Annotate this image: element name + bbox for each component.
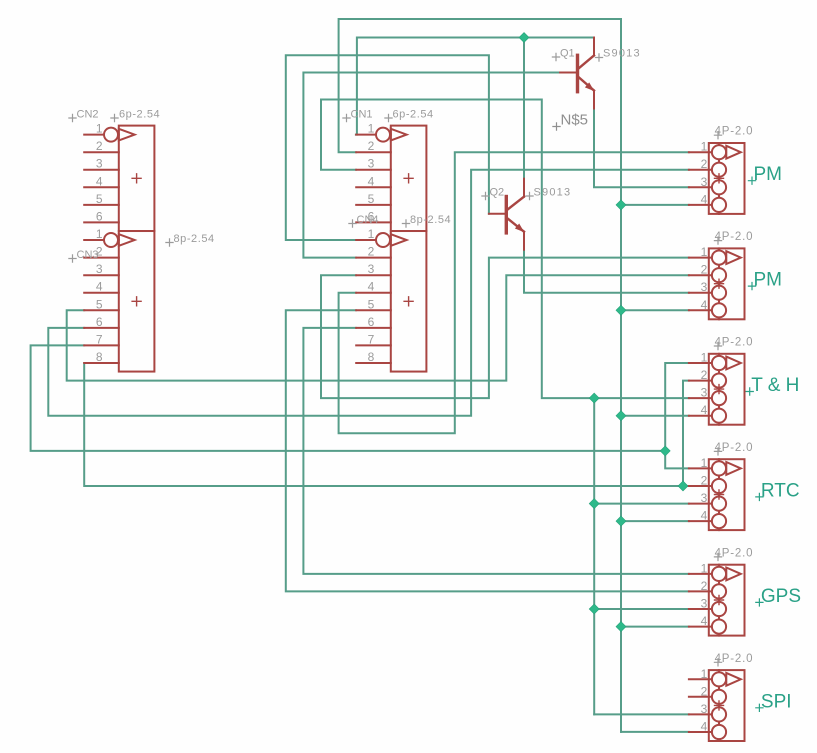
svg-text:8p-2.54: 8p-2.54	[174, 233, 215, 245]
svg-text:SPI: SPI	[761, 691, 792, 712]
svg-text:8: 8	[368, 350, 375, 364]
svg-text:1: 1	[701, 667, 708, 681]
label Q2 name	[481, 187, 504, 201]
label SPI value	[714, 653, 753, 667]
label CN3 pin 4 number	[96, 280, 103, 294]
label CN4 pin 2 number	[368, 245, 375, 259]
wire VCC to GPS pin4	[621, 626, 689, 628]
wire net SDA CN1.3 rail	[321, 100, 689, 399]
svg-text:4: 4	[701, 720, 708, 734]
junction CN3.7 branch	[660, 446, 670, 456]
label SPI pin 1 number	[701, 667, 708, 681]
connector CN2 6p-2.54	[84, 126, 154, 231]
svg-text:Q2: Q2	[490, 187, 505, 199]
label PM1 pin 2 number	[701, 157, 708, 171]
junction VCC/PM1.4	[616, 200, 626, 210]
label CN4 pin 5 number	[368, 297, 375, 311]
connector CN4 8p-2.54	[356, 231, 426, 372]
wire SDA branch vertical	[593, 398, 595, 714]
label Q1 value	[595, 48, 641, 62]
label PM1 name	[748, 164, 782, 185]
svg-text:CN1: CN1	[351, 109, 373, 121]
label GPS pin 4 number	[701, 614, 708, 628]
label T&H value	[714, 337, 753, 351]
wire net CN4.4 to PM1 pin1	[339, 152, 689, 433]
svg-text:3: 3	[96, 157, 103, 171]
svg-text:2: 2	[701, 474, 708, 488]
svg-text:6: 6	[96, 315, 103, 329]
wire VCC to PM1 pin4	[621, 204, 689, 206]
wire net CN4.5 to GPS pin2	[286, 310, 689, 591]
wire net N$5 Q1 emitter to PM1 pin3	[594, 109, 689, 188]
label RTC name	[755, 480, 799, 501]
wire SDA to RTC pin3	[594, 503, 689, 505]
wire SDA to SPI pin3	[594, 713, 689, 715]
label SPI pin 3 number	[701, 702, 708, 716]
label CN1 pin 3 number	[368, 157, 375, 171]
svg-text:GPS: GPS	[761, 586, 801, 607]
label CN4 pin 4 number	[368, 280, 375, 294]
svg-text:N$5: N$5	[561, 112, 589, 129]
svg-text:1: 1	[701, 351, 708, 365]
label net label N$5	[552, 112, 588, 131]
svg-text:4: 4	[701, 298, 708, 312]
svg-text:2: 2	[701, 579, 708, 593]
label GPS pin 2 number	[701, 579, 708, 593]
wire net CN4.1 to Q2 base	[286, 55, 489, 240]
label CN1 pin 2 number	[368, 139, 375, 153]
svg-text:3: 3	[701, 386, 708, 400]
label CN4 pin 3 number	[368, 262, 375, 276]
connector T&H 4P-2.0	[689, 354, 745, 425]
wire net CN3.8 to T&H pin2 and RTC pin2	[84, 363, 689, 486]
label PM2 pin 2 number	[701, 263, 708, 277]
svg-text:6: 6	[96, 209, 103, 223]
svg-text:4P-2.0: 4P-2.0	[715, 547, 754, 559]
transistor Q2 S9013	[489, 179, 524, 250]
svg-text:2: 2	[701, 263, 708, 277]
label T&H pin 4 number	[701, 403, 708, 417]
label CN3 value	[165, 233, 214, 247]
label CN3 pin 6 number	[96, 315, 103, 329]
svg-text:1: 1	[701, 561, 708, 575]
junction VCC/RTC.4	[616, 516, 626, 526]
label GPS pin 1 number	[701, 561, 708, 575]
svg-text:8p-2.54: 8p-2.54	[410, 214, 451, 226]
svg-text:3: 3	[701, 597, 708, 611]
svg-text:Q1: Q1	[560, 48, 575, 60]
label PM2 name	[748, 270, 782, 291]
connector PM2 4P-2.0	[689, 248, 745, 319]
svg-text:4: 4	[96, 280, 103, 294]
wire net CN3.6 to PM1 pin2	[48, 170, 689, 416]
label RTC pin 3 number	[701, 491, 708, 505]
label CN4 value	[402, 214, 451, 228]
wire net CN3.5 to PM2 pin2	[67, 275, 689, 380]
label CN1 pin 5 number	[368, 192, 375, 206]
label T&H pin 1 number	[701, 351, 708, 365]
label RTC pin 1 number	[701, 456, 708, 470]
svg-text:6p-2.54: 6p-2.54	[393, 109, 434, 121]
label SPI pin 2 number	[701, 684, 708, 698]
label T&H pin 2 number	[701, 368, 708, 382]
wire VCC to RTC pin4	[621, 520, 689, 522]
label CN1 pin 1 number	[368, 122, 375, 136]
wire net CN4.6 to GPS pin1	[303, 328, 689, 574]
svg-text:1: 1	[368, 227, 375, 241]
label Q2 value	[525, 187, 571, 201]
svg-text:1: 1	[368, 122, 375, 136]
svg-text:2: 2	[701, 368, 708, 382]
wire net VCC CN1.2 top rail	[339, 19, 621, 732]
label RTC value	[714, 442, 753, 456]
connector CN1 6p-2.54	[356, 126, 426, 231]
label CN3 pin 7 number	[96, 332, 103, 346]
label CN2 pin 4 number	[96, 174, 103, 188]
label CN4 pin 7 number	[368, 332, 375, 346]
label CN3 pin 8 number	[96, 350, 103, 364]
wire SDA to GPS pin3	[594, 608, 689, 610]
svg-text:1: 1	[701, 140, 708, 154]
label GPS name	[755, 586, 801, 607]
connector CN3 8p-2.54	[84, 231, 154, 372]
svg-text:CN2: CN2	[77, 109, 99, 121]
wire net CN4.2 to Q1 base	[303, 73, 560, 258]
svg-text:4: 4	[96, 174, 103, 188]
label CN3 pin 3 number	[96, 262, 103, 276]
transistor Q1 S9013	[560, 38, 594, 109]
label CN4 pin 6 number	[368, 315, 375, 329]
label CN2 name	[68, 109, 98, 123]
junction SDA branch	[589, 393, 599, 403]
svg-text:RTC: RTC	[761, 480, 800, 501]
junction VCC/T&H.4	[616, 411, 626, 421]
svg-text:2: 2	[701, 684, 708, 698]
label PM2 pin 3 number	[701, 280, 708, 294]
wire net N$1 CN1.1 to Q1 collector	[356, 38, 594, 135]
label CN1 name	[342, 109, 372, 123]
svg-text:4: 4	[368, 174, 375, 188]
label CN1 value	[384, 109, 433, 123]
label CN1 pin 4 number	[368, 174, 375, 188]
svg-text:2: 2	[701, 157, 708, 171]
svg-text:5: 5	[368, 192, 375, 206]
svg-text:1: 1	[701, 245, 708, 259]
svg-text:4: 4	[701, 614, 708, 628]
connector SPI 4P-2.0	[689, 670, 745, 741]
label CN3 name	[68, 249, 98, 263]
svg-text:2: 2	[96, 139, 103, 153]
label CN2 pin 6 number	[96, 209, 103, 223]
svg-text:T & H: T & H	[751, 375, 799, 396]
svg-text:1: 1	[96, 227, 103, 241]
svg-text:4P-2.0: 4P-2.0	[715, 231, 754, 243]
svg-text:7: 7	[368, 332, 375, 346]
junction SDA/GPS.3	[589, 604, 599, 614]
junction CN3.8 branch	[678, 481, 688, 491]
label T&H pin 3 number	[701, 386, 708, 400]
wire branch to RTC pin1	[665, 451, 689, 469]
svg-text:PM: PM	[754, 270, 783, 291]
label PM1 pin 4 number	[701, 192, 708, 206]
svg-text:PM: PM	[754, 164, 783, 185]
wire branch to T&H pin2	[683, 381, 689, 486]
svg-text:4: 4	[701, 509, 708, 523]
svg-text:6p-2.54: 6p-2.54	[119, 109, 160, 121]
junction VCC/PM2.4	[616, 305, 626, 315]
svg-text:8: 8	[96, 350, 103, 364]
svg-text:2: 2	[368, 139, 375, 153]
label PM2 pin 1 number	[701, 245, 708, 259]
label SPI name	[755, 691, 791, 712]
svg-text:4: 4	[701, 192, 708, 206]
label CN1 pin 6 number	[368, 209, 375, 223]
label CN4 pin 8 number	[368, 350, 375, 364]
junction VCC/GPS.4	[616, 622, 626, 632]
label CN3 pin 2 number	[96, 245, 103, 259]
svg-text:1: 1	[96, 122, 103, 136]
svg-text:4: 4	[368, 280, 375, 294]
connector PM1 4P-2.0	[689, 143, 745, 214]
label RTC pin 2 number	[701, 474, 708, 488]
connector GPS 4P-2.0	[689, 565, 745, 636]
svg-text:S9013: S9013	[603, 48, 641, 60]
svg-text:3: 3	[701, 175, 708, 189]
label PM1 value	[714, 126, 753, 140]
label GPS value	[714, 547, 753, 561]
wire VCC to PM2 pin4	[621, 309, 689, 311]
svg-text:1: 1	[701, 456, 708, 470]
label Q1 name	[552, 48, 575, 62]
junction SDA/RTC.3	[589, 499, 599, 509]
svg-text:3: 3	[96, 262, 103, 276]
svg-text:3: 3	[368, 157, 375, 171]
wire VCC to SPI pin4	[621, 731, 689, 733]
svg-text:7: 7	[96, 332, 103, 346]
label T&H name	[746, 375, 800, 396]
wire net Q2 emitter to PM2 pin3	[524, 249, 689, 293]
svg-text:S9013: S9013	[534, 187, 572, 199]
label SPI pin 4 number	[701, 720, 708, 734]
label CN3 pin 5 number	[96, 297, 103, 311]
svg-text:CN3: CN3	[77, 249, 99, 261]
label CN4 pin 1 number	[368, 227, 375, 241]
svg-text:3: 3	[701, 491, 708, 505]
svg-text:6: 6	[368, 315, 375, 329]
svg-text:5: 5	[96, 192, 103, 206]
label CN2 pin 3 number	[96, 157, 103, 171]
label CN4 name	[348, 214, 378, 228]
svg-text:4P-2.0: 4P-2.0	[715, 653, 754, 665]
wire VCC to T&H pin4	[621, 415, 689, 417]
svg-text:3: 3	[701, 280, 708, 294]
svg-text:2: 2	[368, 245, 375, 259]
label CN2 pin 2 number	[96, 139, 103, 153]
label PM1 pin 3 number	[701, 175, 708, 189]
connector RTC 4P-2.0	[689, 459, 745, 530]
label PM1 pin 1 number	[701, 140, 708, 154]
label CN3 pin 1 number	[96, 227, 103, 241]
svg-text:4P-2.0: 4P-2.0	[715, 442, 754, 454]
svg-text:CN4: CN4	[357, 214, 379, 226]
wire net CN3.7 to T&H pin1 and RTC pin1	[31, 345, 689, 451]
label PM2 value	[714, 231, 753, 245]
svg-text:4: 4	[701, 403, 708, 417]
svg-text:3: 3	[701, 702, 708, 716]
label RTC pin 4 number	[701, 509, 708, 523]
svg-text:5: 5	[368, 297, 375, 311]
svg-text:4P-2.0: 4P-2.0	[715, 337, 754, 349]
label CN2 pin 1 number	[96, 122, 103, 136]
wire net CN4.3 to PM2 pin1	[321, 258, 689, 399]
svg-text:3: 3	[368, 262, 375, 276]
label CN2 pin 5 number	[96, 192, 103, 206]
label GPS pin 3 number	[701, 597, 708, 611]
wire net N$1 branch to Q2 collector	[523, 38, 525, 179]
label CN2 value	[110, 109, 160, 123]
svg-text:4P-2.0: 4P-2.0	[715, 126, 754, 138]
junction N$1/Q2 collector	[519, 33, 529, 43]
svg-text:5: 5	[96, 297, 103, 311]
label PM2 pin 4 number	[701, 298, 708, 312]
